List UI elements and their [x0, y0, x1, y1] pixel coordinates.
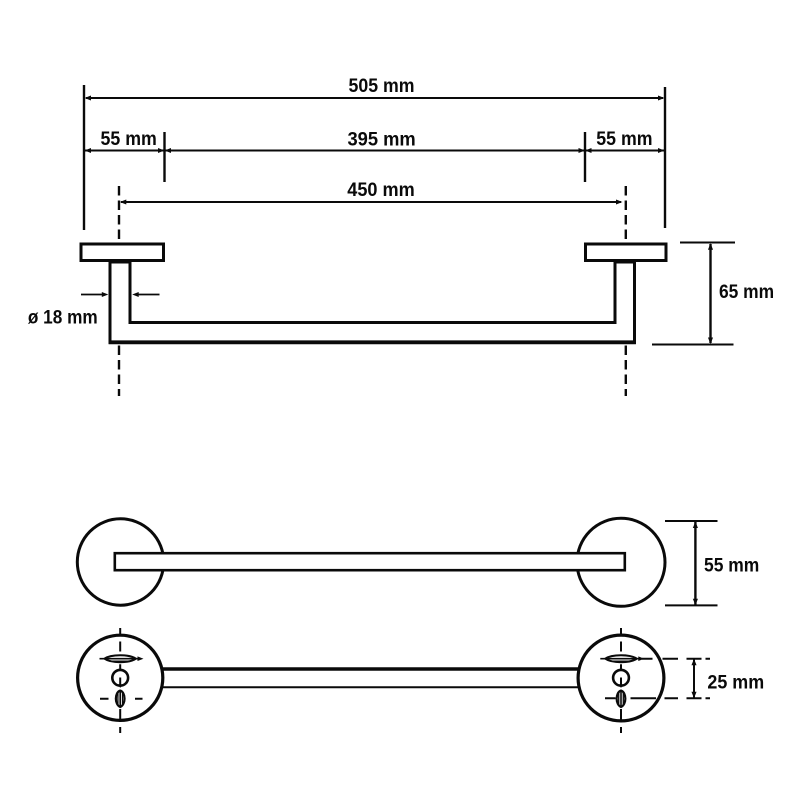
- svg-text:65 mm: 65 mm: [719, 281, 774, 303]
- svg-text:450 mm: 450 mm: [347, 179, 415, 201]
- svg-text:395 mm: 395 mm: [347, 129, 415, 151]
- svg-text:55 mm: 55 mm: [596, 128, 652, 150]
- svg-text:ø 18 mm: ø 18 mm: [28, 307, 98, 329]
- svg-text:55 mm: 55 mm: [704, 555, 759, 577]
- svg-text:505 mm: 505 mm: [349, 75, 415, 97]
- svg-text:25 mm: 25 mm: [707, 672, 764, 694]
- svg-text:55 mm: 55 mm: [101, 128, 157, 150]
